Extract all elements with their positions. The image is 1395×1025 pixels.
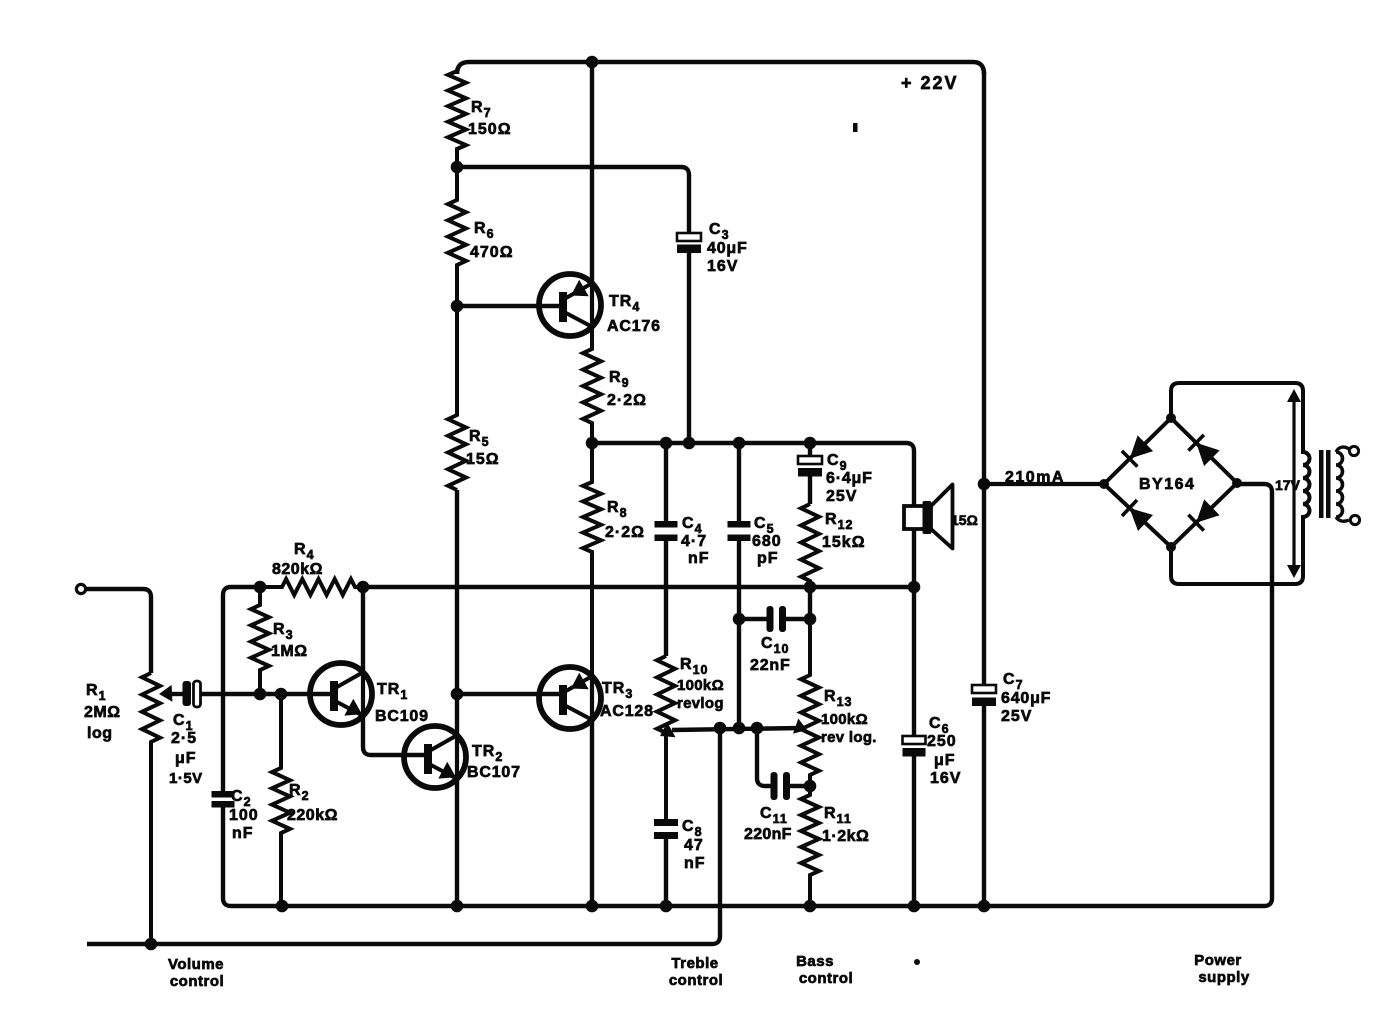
svg-text:revlog: revlog bbox=[677, 695, 724, 712]
transistor TR1 BC109 bbox=[310, 663, 372, 725]
resistor R5 15 bbox=[448, 306, 466, 490]
wire +22V supply top rail bbox=[457, 62, 984, 74]
wire TR3 collector to ground rail bbox=[590, 720, 594, 906]
junction TR3 base tap bbox=[451, 688, 464, 701]
svg-text:40μF: 40μF bbox=[707, 240, 748, 257]
resistor R4 820k bbox=[260, 579, 363, 595]
svg-text:820kΩ: 820kΩ bbox=[272, 561, 323, 578]
svg-text:15Ω: 15Ω bbox=[951, 512, 978, 528]
wire +22V right-hand rail (lower) bbox=[982, 706, 986, 906]
svg-text:μF: μF bbox=[175, 750, 197, 767]
wire transformer secondary loop bbox=[1171, 383, 1310, 584]
wire R1 wiper arm bbox=[159, 685, 183, 702]
svg-text:100kΩ: 100kΩ bbox=[821, 711, 868, 728]
svg-text:pF: pF bbox=[757, 550, 779, 567]
junction C10 right node bbox=[804, 613, 817, 626]
junction amplifier output node bbox=[586, 437, 599, 450]
svg-text:control: control bbox=[669, 972, 723, 989]
wire TR4 base lead bbox=[457, 304, 561, 308]
label R5 value bbox=[466, 428, 500, 468]
svg-text:Treble: Treble bbox=[671, 955, 718, 972]
wire rectifier output to bridge bbox=[984, 482, 1104, 486]
svg-text:15kΩ: 15kΩ bbox=[822, 534, 866, 551]
svg-text:Volume: Volume bbox=[168, 956, 224, 973]
label TR1 bbox=[375, 681, 429, 725]
potentiometer R10 treble 100k bbox=[657, 656, 675, 819]
svg-text:25V: 25V bbox=[826, 488, 857, 505]
svg-text:16V: 16V bbox=[930, 770, 961, 787]
wire input to volume control bbox=[86, 589, 151, 673]
svg-text:17V: 17V bbox=[1275, 477, 1301, 493]
resistor R8 2.2 bbox=[583, 443, 601, 676]
svg-text:2·2Ω: 2·2Ω bbox=[605, 524, 645, 541]
junction C1/R3/TR1 base node bbox=[254, 688, 267, 701]
capacitor C1 2.5uF bbox=[183, 681, 331, 707]
svg-text:22nF: 22nF bbox=[750, 657, 791, 674]
diode D4 (bridge bottom-right) bbox=[1188, 499, 1219, 530]
junction R11 ground bbox=[804, 900, 817, 913]
svg-text:+ 22V: + 22V bbox=[901, 73, 959, 93]
label speaker impedance bbox=[951, 512, 978, 528]
wire TR2 collector vertical bbox=[455, 490, 459, 735]
junction C4 top node bbox=[660, 437, 673, 450]
capacitor C9 6.4uF bbox=[798, 443, 822, 504]
diode D1 (bridge top-left) bbox=[1122, 435, 1153, 466]
transformer T1 core bbox=[1319, 450, 1331, 518]
junction R2 ground bbox=[276, 900, 289, 913]
resistor R11 1.2k bbox=[801, 786, 819, 906]
speck artefact top bbox=[853, 123, 858, 132]
svg-text:47: 47 bbox=[684, 837, 704, 854]
wire TR1 emitter to TR2 base bbox=[363, 716, 426, 755]
transistor TR3 AC128 bbox=[539, 667, 601, 729]
junction R2 base node bbox=[275, 688, 288, 701]
svg-text:AC176: AC176 bbox=[607, 318, 661, 335]
svg-text:1·2kΩ: 1·2kΩ bbox=[822, 828, 869, 845]
svg-text:supply: supply bbox=[1198, 969, 1249, 986]
junction C8 ground bbox=[660, 900, 673, 913]
junction wiper bus / C11 branch bbox=[751, 722, 764, 735]
wire feedback line bbox=[363, 585, 914, 589]
speaker 15 ohm bbox=[904, 485, 953, 588]
svg-text:log: log bbox=[87, 725, 113, 742]
junction R7/R6/C3 node bbox=[451, 161, 464, 174]
bridge rectifier BY164 frame bbox=[1099, 413, 1242, 552]
svg-text:25V: 25V bbox=[1001, 708, 1032, 725]
junction wiper bus / signal ground bbox=[714, 722, 727, 735]
label R2 value bbox=[287, 782, 338, 824]
svg-text:250: 250 bbox=[927, 733, 957, 750]
svg-text:control: control bbox=[170, 973, 224, 990]
junction C6 ground bbox=[908, 900, 921, 913]
svg-text:15Ω: 15Ω bbox=[466, 451, 500, 468]
svg-text:640μF: 640μF bbox=[1001, 690, 1051, 707]
capacitor C10 22nF bbox=[739, 606, 810, 632]
wire R7-R6 node to C3 bbox=[457, 167, 689, 233]
label C7 value bbox=[1001, 671, 1051, 725]
resistor R7 150 bbox=[448, 71, 466, 167]
label Volume control bbox=[168, 956, 224, 990]
label R11 value bbox=[822, 805, 869, 845]
junction R1 bottom / signal ground bbox=[145, 938, 158, 951]
capacitor C2 100nF bbox=[212, 791, 235, 906]
junction TR2 emitter ground bbox=[451, 900, 464, 913]
junction C11 right node bbox=[804, 780, 817, 793]
label BY164 bbox=[1139, 476, 1195, 493]
resistor R3 1M bbox=[251, 587, 269, 694]
resistor R2 220k bbox=[272, 694, 290, 906]
svg-text:16V: 16V bbox=[707, 258, 738, 275]
label C4 value bbox=[681, 515, 710, 567]
svg-text:AC128: AC128 bbox=[600, 703, 654, 720]
label TR2 bbox=[467, 743, 521, 781]
capacitor C8 47nF bbox=[654, 819, 678, 906]
capacitor C6 250uF bbox=[903, 736, 926, 906]
svg-text:6·4μF: 6·4μF bbox=[826, 470, 873, 487]
junction rectifier output 210mA tap bbox=[978, 478, 991, 491]
svg-text:nF: nF bbox=[684, 855, 706, 872]
wire TR2 emitter to ground rail bbox=[455, 779, 459, 906]
wire TR4 emitter to +22V rail bbox=[590, 62, 594, 283]
label C11 value bbox=[744, 805, 792, 843]
label C9 value bbox=[826, 452, 873, 505]
label Bass control bbox=[796, 953, 853, 987]
label R13 value bbox=[821, 688, 877, 746]
label TR4 bbox=[607, 293, 661, 335]
svg-text:100kΩ: 100kΩ bbox=[677, 677, 724, 694]
label R7 value bbox=[468, 99, 512, 138]
svg-text:220kΩ: 220kΩ bbox=[287, 807, 338, 824]
svg-text:control: control bbox=[799, 970, 853, 987]
label C10 value bbox=[750, 635, 791, 674]
svg-text:2MΩ: 2MΩ bbox=[84, 704, 121, 721]
label R9 value bbox=[607, 369, 647, 409]
label 210mA bbox=[1005, 469, 1065, 486]
node +22V supply label bbox=[901, 73, 959, 93]
junction C3 / output rail bbox=[683, 437, 696, 450]
potentiometer R13 bass 100k bbox=[801, 619, 819, 786]
label Treble control bbox=[669, 955, 723, 989]
label R6 value bbox=[470, 220, 514, 261]
label 17V with dimension arrow bbox=[1275, 389, 1301, 578]
label R12 value bbox=[822, 511, 866, 551]
wire speaker return bbox=[912, 587, 916, 736]
junction R4/TR1 collector node bbox=[357, 581, 370, 594]
junction C5 top node bbox=[733, 437, 746, 450]
junction top rail / TR4 emitter bbox=[586, 56, 599, 69]
label R4 value bbox=[272, 541, 323, 578]
potentiometer R1 2M log bbox=[142, 673, 160, 944]
wire bridge negative return bbox=[1237, 484, 1272, 906]
svg-text:rev log.: rev log. bbox=[821, 729, 877, 746]
wire TR1 collector bbox=[361, 587, 365, 672]
transistor TR2 BC107 bbox=[404, 726, 466, 788]
wire bias node stub bbox=[231, 585, 260, 589]
svg-text:nF: nF bbox=[688, 550, 710, 567]
transformer T1 primary winding bbox=[1336, 446, 1360, 524]
svg-text:220nF: 220nF bbox=[744, 826, 792, 843]
label TR3 bbox=[600, 680, 654, 720]
junction C7 ground bbox=[978, 900, 991, 913]
svg-text:Power: Power bbox=[1194, 952, 1242, 969]
label C3 value bbox=[707, 221, 748, 275]
label C2 value bbox=[229, 788, 259, 842]
label C5 value bbox=[752, 515, 782, 567]
resistor R12 15k bbox=[801, 504, 819, 587]
wire treble return to signal ground rail bbox=[87, 728, 720, 944]
label Power supply bbox=[1194, 952, 1250, 986]
capacitor C7 640uF (reservoir) bbox=[972, 685, 996, 706]
capacitor C5 680pF bbox=[728, 443, 751, 728]
wire ground rail bbox=[231, 904, 1264, 909]
wire output rail to speaker bbox=[592, 443, 914, 506]
svg-text:μF: μF bbox=[934, 752, 956, 769]
wire +22V right-hand rail (upper) bbox=[982, 72, 986, 686]
label C1 value bbox=[169, 712, 203, 787]
capacitor C4 4.7nF bbox=[655, 443, 678, 656]
svg-text:100: 100 bbox=[229, 807, 259, 824]
label R8 value bbox=[605, 499, 645, 541]
transistor TR4 AC176 bbox=[539, 274, 601, 336]
svg-text:4·7: 4·7 bbox=[681, 533, 707, 550]
label R1 value bbox=[84, 682, 121, 742]
resistor R9 2.2 bbox=[583, 327, 601, 443]
svg-text:680: 680 bbox=[752, 533, 782, 550]
diode D3 (bridge top-right) bbox=[1188, 435, 1219, 466]
svg-text:BC109: BC109 bbox=[375, 708, 429, 725]
junction R12 / feedback line bbox=[804, 581, 817, 594]
input terminal bbox=[76, 584, 85, 593]
svg-text:BY164: BY164 bbox=[1139, 476, 1195, 493]
svg-text:1·5V: 1·5V bbox=[169, 770, 203, 787]
capacitor C3 40uF bbox=[677, 233, 701, 443]
wire tone wiper bus bbox=[660, 719, 807, 738]
svg-text:2·2Ω: 2·2Ω bbox=[607, 392, 647, 409]
svg-text:470Ω: 470Ω bbox=[470, 244, 514, 261]
capacitor C11 220nF bbox=[757, 728, 810, 800]
junction wiper bus / C5 branch bbox=[733, 722, 746, 735]
svg-text:BC107: BC107 bbox=[467, 764, 521, 781]
junction C10 left node bbox=[733, 613, 746, 626]
diode D2 (bridge bottom-left) bbox=[1122, 500, 1153, 531]
speck artefact bottom bbox=[914, 959, 920, 965]
label C8 value bbox=[682, 818, 706, 872]
junction R3/R4 bias node bbox=[254, 581, 267, 594]
resistor R6 470 bbox=[448, 167, 466, 306]
junction TR3 ground bbox=[586, 900, 599, 913]
label R3 value bbox=[271, 621, 308, 660]
wire TR3 base lead bbox=[457, 692, 561, 696]
svg-text:210mA: 210mA bbox=[1005, 469, 1065, 486]
junction C9 top node bbox=[804, 437, 817, 450]
label R10 value bbox=[677, 656, 724, 712]
junction feedback / speaker return bbox=[908, 581, 921, 594]
svg-text:nF: nF bbox=[232, 825, 254, 842]
svg-text:2·5: 2·5 bbox=[171, 730, 197, 747]
wire R12 to bass pot bbox=[808, 587, 812, 619]
svg-text:1MΩ: 1MΩ bbox=[271, 643, 308, 660]
svg-text:Bass: Bass bbox=[796, 953, 834, 970]
junction R6/R5/TR4-base node bbox=[451, 300, 464, 313]
wire bias decoupling branch bbox=[223, 587, 231, 791]
svg-text:150Ω: 150Ω bbox=[468, 121, 512, 138]
label C6 value bbox=[927, 715, 961, 787]
